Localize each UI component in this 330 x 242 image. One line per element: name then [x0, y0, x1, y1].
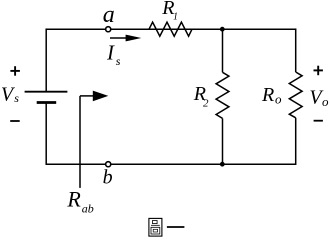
svg-text:ab: ab: [82, 201, 94, 215]
svg-text:s: s: [14, 91, 19, 105]
svg-text:I: I: [106, 40, 115, 64]
caption character yi (one): [167, 226, 185, 228]
voltage source Vs battery: [25, 92, 68, 103]
wire R2 branch upper: [222, 29, 224, 72]
svg-text:R: R: [66, 187, 81, 212]
wire R2 branch lower: [222, 118, 224, 164]
wire left vertical lower: [45, 103, 47, 165]
junction dot bottom: [220, 162, 225, 167]
svg-text:o: o: [322, 94, 329, 109]
svg-text:1: 1: [173, 12, 178, 23]
node b: [106, 162, 111, 167]
label plus Vo: [314, 66, 323, 76]
svg-text:o: o: [275, 91, 282, 106]
label minus Vs: [10, 120, 20, 122]
caption character tu (figure): [149, 218, 162, 236]
wire left vertical upper: [45, 28, 47, 91]
svg-text:a: a: [103, 2, 115, 28]
wire bottom horizontal: [46, 163, 296, 165]
wire right vertical upper: [295, 28, 297, 72]
svg-text:R: R: [261, 84, 274, 106]
resistor R2: [216, 72, 229, 118]
resistor R1: [149, 22, 192, 36]
label plus Vs: [10, 66, 20, 76]
svg-text:2: 2: [203, 97, 209, 109]
junction dot top: [220, 27, 225, 32]
node a: [106, 27, 111, 32]
wire right vertical lower: [295, 118, 297, 165]
resistance arrow Rab: [80, 91, 108, 188]
svg-text:s: s: [116, 54, 121, 68]
current arrow Is: [110, 35, 141, 42]
label minus Vo: [314, 120, 323, 122]
resistor Ro: [289, 72, 302, 118]
wire top horizontal: [46, 28, 296, 30]
svg-text:b: b: [103, 166, 113, 188]
